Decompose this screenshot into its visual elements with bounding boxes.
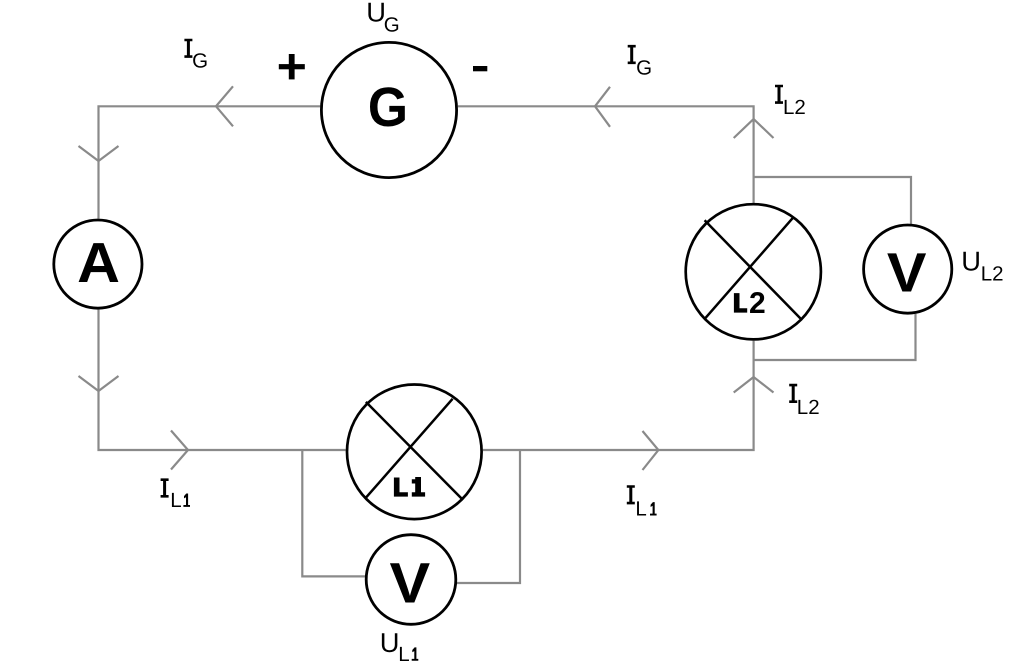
svg-text:U: U — [380, 627, 400, 658]
arrow I_L1 left (pointing right) — [171, 431, 188, 470]
arrow left wire upper (pointing down) — [79, 146, 119, 161]
svg-text:L2: L2 — [783, 96, 806, 119]
lamp L1 cross — [366, 399, 462, 499]
arrow left wire lower (pointing down) — [79, 376, 119, 391]
arrow I_L2 bottom (pointing up) — [734, 377, 774, 393]
voltmeter V2 circle — [864, 225, 952, 313]
svg-text:G: G — [636, 56, 652, 79]
arrow I_G top-right (pointing left) — [595, 87, 610, 127]
label I_G left — [184, 39, 208, 73]
svg-text:L: L — [635, 498, 646, 521]
label I_L1 left — [161, 478, 190, 512]
svg-text:2: 2 — [749, 287, 766, 320]
svg-text:G: G — [368, 76, 408, 138]
svg-text:G: G — [384, 13, 400, 36]
svg-text:L: L — [398, 643, 409, 663]
lamp L2 circle — [686, 204, 821, 339]
svg-text:G: G — [192, 50, 208, 73]
svg-text:L2: L2 — [797, 396, 820, 419]
wire L2 bottom stub — [752, 341, 754, 361]
svg-text:U: U — [961, 246, 981, 277]
label I_L2 top right — [775, 85, 806, 119]
wire top-left + left vertical upper — [99, 106, 321, 218]
arrow I_L1 right (pointing right) — [643, 431, 659, 470]
arrow I_G top-left (pointing left) — [216, 86, 233, 126]
label I_L2 bottom right — [789, 384, 819, 419]
label U_L2 — [961, 246, 1003, 286]
generator G circle — [321, 42, 456, 177]
plus sign — [279, 54, 305, 79]
minus sign — [473, 66, 487, 71]
lamp L2 label — [734, 293, 747, 313]
svg-text:L2: L2 — [981, 262, 1004, 285]
wire bottom-right horizontal + right vertical lower — [483, 360, 754, 450]
label U_G — [366, 0, 399, 36]
wire branch L2 bottom to voltmeter V2 — [754, 314, 916, 360]
label I_G right — [628, 45, 652, 80]
wire branch L1 right to voltmeter V1 — [457, 449, 520, 583]
wire left vertical lower + bottom-left horizontal — [99, 310, 346, 450]
label I_L1 right — [627, 485, 657, 520]
wire branch L2 top to voltmeter V2 — [754, 177, 911, 224]
arrow I_L2 top (pointing up) — [734, 119, 774, 138]
wire branch L1 left to voltmeter V1 — [302, 449, 365, 576]
lamp L2 cross — [704, 218, 800, 320]
svg-text:L: L — [170, 489, 181, 512]
voltmeter V1 circle — [366, 535, 456, 625]
svg-text:V: V — [390, 551, 431, 615]
svg-text:V: V — [887, 241, 927, 303]
wire top-right horizontal + right vertical upper — [458, 106, 754, 203]
lamp L1 circle — [347, 385, 482, 520]
label U_L1 — [380, 627, 419, 663]
ammeter A circle — [54, 220, 142, 308]
lamp L1 label — [394, 478, 408, 497]
svg-text:A: A — [77, 231, 120, 294]
